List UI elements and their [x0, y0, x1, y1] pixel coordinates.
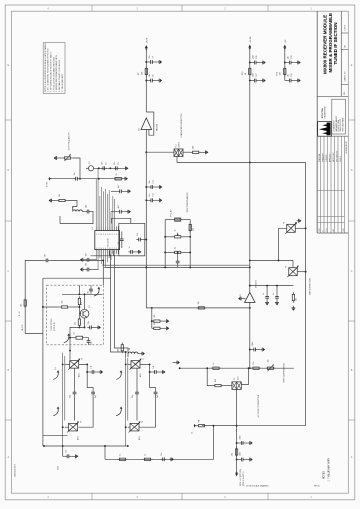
wire R21 gnd — [162, 320, 164, 322]
capacitor C6 — [85, 205, 91, 214]
wire C19 gnd — [135, 251, 137, 253]
wire bus1 drop — [145, 267, 147, 308]
rail chain1 left A — [62, 353, 64, 446]
thermistor RT1 — [171, 209, 183, 221]
title text TUNED IF SECTION — [333, 22, 338, 64]
wire C15 — [91, 259, 97, 261]
svg-text:3: 3 — [116, 234, 117, 236]
wire bus1 top — [145, 52, 147, 113]
node bias bus2 — [249, 259, 251, 261]
svg-text:47k: 47k — [154, 322, 156, 325]
capacitor C19 — [128, 246, 134, 253]
oscillator option box dashed — [47, 285, 104, 345]
node chain1 bot — [62, 445, 64, 447]
ground R9 — [204, 150, 209, 154]
wire row link — [104, 446, 106, 459]
svg-text:10k: 10k — [59, 194, 61, 197]
capacitor C7 — [148, 55, 154, 64]
svg-text:10k: 10k — [21, 304, 23, 307]
title text MIXER &amp; PROGRAMMABLE — [328, 13, 333, 73]
resistor R20 — [196, 301, 207, 309]
power +9V RX node — [248, 36, 252, 51]
svg-text:18p: 18p — [86, 205, 88, 208]
node C53 — [86, 371, 88, 373]
node R32 emit row — [78, 326, 80, 328]
wire C18 top — [121, 232, 123, 237]
wire C50 bot — [139, 396, 156, 427]
node y368 left — [179, 367, 181, 369]
node osc top — [78, 293, 80, 295]
svg-text:T5: T5 — [82, 358, 84, 360]
wire C47 link — [63, 455, 65, 457]
svg-text:2. IF1 = 45.1MHZ XTAL FILTER 4: 2. IF1 = 45.1MHZ XTAL FILTER 45M15AU FIT… — [47, 48, 50, 92]
mixer box bottom short — [43, 435, 68, 437]
capacitor C46 — [91, 390, 97, 398]
svg-text:L4: L4 — [129, 348, 131, 350]
svg-text:10u: 10u — [288, 56, 290, 59]
svg-text:2: 2 — [114, 234, 115, 236]
svg-text:+9V IF: +9V IF — [147, 37, 149, 43]
wire bus1 c1 — [146, 61, 148, 63]
wire y368 — [180, 367, 294, 369]
svg-text:3.4: 3.4 — [137, 233, 139, 236]
wire across to IC — [60, 223, 94, 225]
wire C42 up — [90, 285, 92, 287]
wire C21 in — [111, 190, 117, 192]
wire C11 gnd — [155, 186, 157, 188]
svg-text:RSSI + 9V (OPTION): RSSI + 9V (OPTION) — [240, 469, 242, 486]
inductor L2 — [73, 206, 83, 212]
node mix a — [98, 167, 100, 169]
svg-text:1.4: 1.4 — [153, 366, 155, 369]
wire R9 gnd — [201, 151, 204, 153]
svg-text:A3: A3 — [344, 45, 347, 47]
node bus1 c2 — [145, 80, 147, 82]
wire C33 feed — [276, 286, 278, 295]
svg-text:10n: 10n — [86, 253, 88, 256]
node RV1 input — [79, 178, 81, 180]
svg-text:45G: 45G — [237, 376, 239, 380]
ground C47 — [74, 454, 79, 458]
wire Q1 emit — [84, 318, 86, 328]
svg-text:3: 3 — [116, 248, 117, 250]
resistor R25 — [251, 362, 262, 370]
revision table — [317, 136, 344, 233]
wire T6 left — [65, 426, 69, 428]
node RV2 right — [189, 236, 191, 238]
wire C53 gnd — [96, 371, 98, 373]
node pair ladder left — [164, 266, 166, 268]
svg-text:8: 8 — [109, 248, 110, 250]
node row link — [104, 445, 106, 447]
node C20 — [145, 239, 147, 241]
node bus2 cap349 — [249, 349, 251, 351]
svg-text:560: 560 — [193, 146, 195, 149]
wire row to J2 — [200, 426, 214, 460]
ground C19 — [137, 250, 142, 254]
wire c4 stub — [146, 199, 148, 201]
wire C24 bottom — [177, 265, 179, 267]
capacitor C22 — [117, 205, 123, 213]
rail chain2 left A — [125, 357, 127, 446]
svg-text:33p: 33p — [132, 395, 134, 398]
svg-text:1k: 1k — [213, 363, 215, 365]
svg-text:DESIGN INPUT: DESIGN INPUT — [346, 141, 348, 153]
ground C32 — [265, 301, 269, 306]
node R26 left — [206, 367, 208, 369]
wire mix row — [94, 167, 124, 169]
wire shield top feed — [112, 218, 131, 223]
svg-text:IF1 IN: IF1 IN — [47, 181, 49, 187]
capacitor C24 — [176, 259, 180, 265]
node y368 — [249, 367, 251, 369]
svg-text:T4: T4 — [234, 378, 236, 380]
wire C24 top — [177, 252, 179, 258]
svg-text:10k: 10k — [268, 359, 270, 362]
svg-text:51: 51 — [116, 173, 118, 175]
node U3 b — [276, 285, 278, 287]
title block sheet cells — [341, 11, 348, 96]
capacitor C3 — [113, 162, 120, 170]
ground C33 — [275, 301, 279, 306]
wire U1 supply row — [91, 255, 145, 257]
wire L4 gnd — [138, 353, 140, 355]
capacitor C29 — [287, 56, 293, 65]
svg-text:T2: T2 — [284, 222, 286, 224]
ground C16 — [80, 268, 85, 272]
svg-text:10: 10 — [245, 73, 247, 75]
capacitor C26 — [252, 55, 258, 65]
svg-text:7: 7 — [107, 248, 108, 250]
node c443 — [236, 442, 238, 444]
svg-text:10u: 10u — [288, 74, 290, 77]
wire R22 gnd — [162, 327, 164, 329]
svg-text:MP: MP — [333, 229, 335, 231]
svg-text:9: 9 — [111, 248, 112, 250]
node U3 rail — [249, 285, 251, 287]
resistor R9 — [190, 146, 201, 154]
wire C6 to wire — [91, 212, 93, 224]
svg-text:T8: T8 — [142, 421, 144, 423]
svg-text:100n: 100n — [240, 435, 242, 439]
svg-text:10k: 10k — [232, 453, 234, 456]
svg-text:J2: J2 — [192, 432, 194, 434]
wire C22 in — [111, 211, 117, 213]
svg-text:8: 8 — [109, 234, 110, 236]
wire cl3 — [284, 51, 286, 81]
selector arc chain1 b — [53, 407, 59, 416]
ground C53 — [98, 370, 103, 374]
capacitor C8 — [148, 74, 154, 83]
svg-text:2p2: 2p2 — [95, 395, 97, 398]
ground C26 — [261, 61, 266, 65]
tuned IF section box right edge — [305, 162, 307, 425]
capacitor C32 — [263, 293, 269, 301]
svg-text:TUNED IF SECTION: TUNED IF SECTION — [333, 22, 338, 64]
wire U3 top rail — [250, 285, 294, 287]
wire bus1 c2 — [146, 80, 148, 82]
border zone ticks right — [348, 120, 355, 420]
wire T2 right — [295, 227, 305, 229]
wire C12 gnd — [155, 199, 157, 201]
svg-text:10n: 10n — [66, 450, 68, 453]
wire bias to T3 — [250, 259, 293, 261]
node C50 top — [149, 363, 151, 365]
label ALC — [19, 311, 24, 331]
wire c459 stub — [237, 459, 239, 461]
node T5 left rail — [62, 363, 64, 365]
svg-text:1. * VALUE MAY VARY: 1. * VALUE MAY VARY — [327, 458, 330, 482]
wire J2 — [207, 425, 237, 427]
svg-text:1: 1 — [96, 248, 97, 250]
wire C32 feed — [266, 286, 268, 295]
svg-text:RT1 4k7: RT1 4k7 — [171, 209, 173, 216]
tuned transformer T8 — [129, 421, 145, 433]
wire C47 up — [62, 446, 64, 456]
node wire308 — [249, 307, 251, 309]
svg-text:T3: T3 — [286, 266, 288, 268]
wire across left elbow — [59, 216, 61, 224]
wire C50 top — [140, 364, 156, 389]
capacitor C34 — [252, 342, 258, 352]
node T6 left rail — [62, 426, 64, 428]
ground C29 — [296, 61, 301, 65]
node pair ladder right — [189, 266, 191, 268]
node T8 left rail — [125, 426, 127, 428]
wire T2 left — [279, 228, 287, 260]
svg-text:FL1: FL1 — [175, 144, 177, 147]
ground C12 — [157, 198, 162, 202]
svg-text:C30: C30 — [291, 74, 293, 77]
notes box top-left — [43, 42, 65, 93]
svg-text:XTAL FILTER CONNECTION: XTAL FILTER CONNECTION — [180, 113, 183, 138]
wire L2 right — [82, 211, 85, 213]
resistor R15 — [242, 66, 251, 77]
svg-text:2: 2 — [98, 234, 99, 236]
ground C8 — [157, 79, 162, 83]
wire to filter — [146, 151, 174, 153]
ground C7 — [157, 60, 162, 64]
capacitor C30 — [287, 74, 293, 83]
ground y368 left — [173, 361, 180, 365]
selector arc osc out — [64, 334, 70, 343]
svg-text:45G: 45G — [140, 373, 142, 377]
svg-text:C: C — [7, 270, 9, 273]
svg-text:100n: 100n — [253, 73, 255, 77]
node R33 boxL — [42, 306, 44, 308]
svg-text:100: 100 — [142, 72, 144, 75]
node C46 top — [86, 363, 88, 365]
node Q1 base node — [78, 306, 80, 308]
svg-text:CHECKED: CHECKED — [326, 154, 328, 162]
svg-text:10n: 10n — [161, 453, 163, 456]
wire C42 down — [90, 293, 92, 294]
ground mix row — [124, 166, 129, 170]
capacitor C2 — [101, 162, 108, 170]
label TEMP COMPENSATION — [186, 192, 189, 213]
wire T3 right — [297, 271, 305, 273]
svg-text:SPECTRA: SPECTRA — [321, 108, 324, 118]
wire feedback — [146, 112, 154, 135]
svg-text:4: 4 — [101, 234, 102, 236]
revision table entries — [318, 141, 348, 231]
svg-text:10k: 10k — [296, 298, 298, 301]
resistor R28 — [232, 447, 238, 458]
ground C37 — [248, 458, 253, 462]
svg-text:100n: 100n — [253, 55, 255, 59]
wire C20 right — [143, 239, 147, 241]
svg-text:1ST IF FREQ ADJUST: 1ST IF FREQ ADJUST — [68, 131, 71, 150]
svg-text:12k: 12k — [253, 362, 255, 365]
svg-text:ENGINEERING: ENGINEERING — [325, 106, 327, 119]
node R13 left — [164, 251, 166, 253]
resistor R32 — [75, 317, 81, 328]
wire R5 to L2 — [67, 201, 77, 207]
resistor R7 — [138, 66, 147, 77]
wire bus1 mid — [145, 152, 147, 267]
resistor R22 — [152, 322, 163, 330]
power -9V node — [235, 469, 245, 486]
svg-text:1.5: 1.5 — [55, 367, 57, 370]
wire C1 to node — [79, 178, 81, 180]
label 2nd IF out — [58, 465, 60, 470]
svg-text:10k: 10k — [198, 301, 200, 304]
label DC OFFSET CORRECTION — [258, 394, 260, 417]
node cl3 c1 — [284, 62, 286, 64]
svg-text:X1: X1 — [74, 332, 76, 334]
ground C34 — [260, 348, 265, 352]
svg-text:10n: 10n — [88, 291, 90, 294]
border zone ticks bottom — [92, 493, 268, 500]
title block outline — [317, 11, 348, 233]
ground C21 — [126, 189, 131, 193]
svg-text:10n: 10n — [149, 194, 151, 197]
node T2 edge — [305, 227, 307, 229]
svg-text:45M15: 45M15 — [179, 142, 181, 148]
wire L2 in — [73, 207, 77, 212]
svg-text:33p: 33p — [70, 395, 72, 398]
svg-text:2: 2 — [114, 248, 115, 250]
node c459 — [236, 459, 238, 461]
svg-text:DO NOT SCALE DRAWING: DO NOT SCALE DRAWING — [246, 485, 269, 488]
tuned IF section box bottom — [202, 425, 306, 427]
svg-text:DRG C08271-03: DRG C08271-03 — [337, 151, 339, 162]
node T4 y425 — [236, 425, 238, 427]
capacitor C41 — [87, 321, 93, 329]
variable transformer T4 — [232, 376, 241, 390]
svg-text:8k2: 8k2 — [215, 379, 217, 382]
node chain1 top — [69, 350, 71, 352]
node bus1 c3 — [145, 186, 147, 188]
capacitor C49 — [132, 390, 139, 398]
wire C30 gnd — [293, 80, 295, 82]
wire R33 left out — [43, 306, 59, 308]
svg-text:100n: 100n — [240, 452, 242, 456]
wire RV2 left — [165, 236, 172, 238]
wire C26 gnd — [258, 62, 260, 64]
svg-text:10n: 10n — [114, 162, 116, 165]
svg-text:L5: L5 — [89, 161, 91, 163]
connector J2 — [192, 424, 197, 434]
svg-text:22k: 22k — [75, 322, 77, 325]
wire R26 right — [223, 385, 232, 387]
capacitor C20 — [136, 233, 142, 241]
capacitor C54 — [152, 366, 158, 374]
svg-text:1u: 1u — [273, 293, 275, 295]
potentiometer RV2 — [172, 229, 183, 238]
svg-text:10n: 10n — [149, 180, 151, 183]
label chain1 — [55, 367, 57, 370]
svg-text:C12: C12 — [153, 193, 155, 196]
wire cl3 c1 stub — [285, 62, 287, 64]
trimmer RV1 — [62, 154, 73, 161]
selector arc chain2 b — [116, 407, 122, 416]
power +9V node 1 — [145, 37, 149, 51]
wire Q1 base — [79, 313, 81, 315]
wire L5 feed — [85, 167, 87, 169]
node R13 right — [189, 251, 191, 253]
wire C7 gnd — [155, 61, 158, 63]
svg-text:D: D — [351, 169, 353, 172]
wire C46 bot — [79, 396, 94, 427]
svg-text:C08271-03: C08271-03 — [345, 71, 347, 82]
ground C22 — [126, 210, 131, 214]
svg-text:10n: 10n — [74, 172, 76, 175]
capacitor C52 — [160, 453, 166, 462]
resistor R31 — [78, 296, 83, 307]
wire C16 — [91, 269, 98, 271]
node C54 — [149, 371, 151, 373]
wire Q1 coll — [84, 294, 86, 309]
capacitor C11 — [149, 180, 155, 189]
svg-text:45G: 45G — [79, 373, 81, 377]
resistor R33 — [59, 300, 70, 308]
ground U3 input — [238, 297, 245, 301]
svg-text:PH 08 9371 8344: PH 08 9371 8344 — [338, 120, 340, 132]
inductor bead L5 — [88, 161, 93, 171]
resistor R38 — [117, 454, 128, 461]
wire RV2 right — [183, 236, 190, 238]
resistor R29 — [196, 419, 207, 427]
capacitor C1 — [73, 172, 79, 180]
svg-text:ISSUE 3: ISSUE 3 — [340, 156, 342, 162]
svg-text:4: 4 — [101, 248, 102, 250]
wire ALC to box — [25, 333, 43, 335]
svg-text:5: 5 — [103, 234, 104, 236]
resistor R5 — [57, 194, 68, 202]
ground C27 — [261, 79, 266, 83]
label T5 value — [79, 373, 81, 377]
wire filter to R9 — [183, 151, 191, 153]
svg-text:D: D — [7, 169, 9, 172]
svg-text:10n: 10n — [86, 263, 88, 266]
svg-text:C29: C29 — [291, 56, 293, 59]
svg-text:9: 9 — [111, 234, 112, 236]
wire RV1 left — [59, 157, 63, 159]
node y368 mid — [248, 367, 250, 369]
selector arc osc top — [94, 287, 100, 296]
svg-text:1: 1 — [112, 248, 113, 250]
svg-text:TEMP COMPENSATION: TEMP COMPENSATION — [283, 362, 286, 383]
ground C36 — [248, 441, 253, 445]
label TEMP COMPENSATION 2 — [283, 362, 286, 383]
variable inductor T3 — [286, 266, 299, 278]
svg-text:C2: C2 — [105, 162, 107, 164]
node mix b — [109, 167, 111, 169]
connector IF input — [47, 177, 52, 187]
wire ALC right — [50, 259, 103, 261]
capacitor C33 — [273, 293, 279, 301]
